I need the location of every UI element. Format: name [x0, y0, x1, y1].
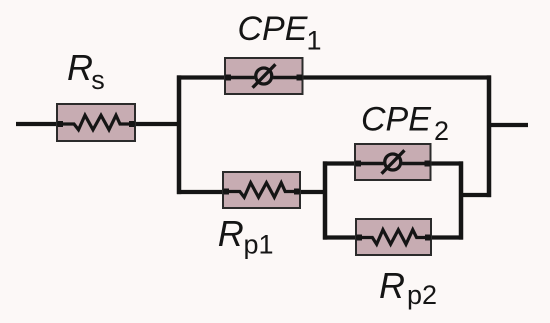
- svg-text:2: 2: [434, 116, 449, 146]
- svg-text:p1: p1: [244, 230, 274, 260]
- svg-text:CPE: CPE: [361, 101, 431, 139]
- svg-text:p2: p2: [407, 280, 437, 310]
- svg-text:R: R: [379, 265, 405, 306]
- svg-text:1: 1: [307, 26, 322, 56]
- svg-text:s: s: [91, 65, 105, 95]
- svg-text:CPE: CPE: [238, 10, 308, 48]
- svg-text:R: R: [67, 47, 93, 88]
- svg-text:R: R: [218, 213, 244, 254]
